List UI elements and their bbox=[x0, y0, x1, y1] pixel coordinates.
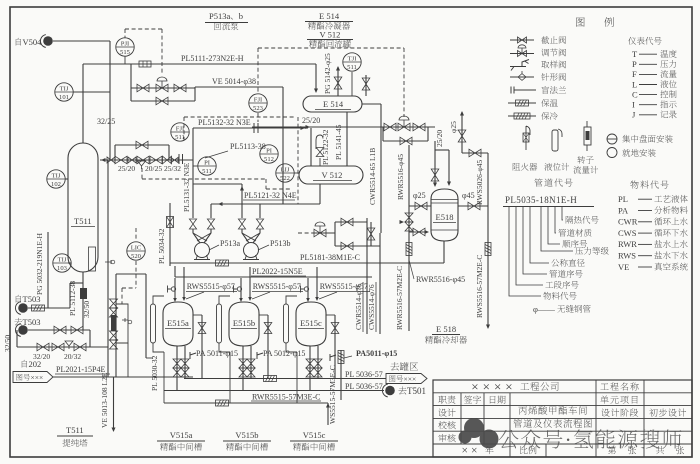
legend flame arrester symbol bbox=[526, 126, 530, 150]
svg-text:PL5132-32 N3E: PL5132-32 N3E bbox=[198, 118, 251, 127]
svg-text:511: 511 bbox=[347, 64, 357, 71]
legend dash bbox=[638, 232, 652, 234]
label leader bbox=[252, 292, 270, 299]
tank bottom outlet bbox=[317, 346, 319, 379]
valve bbox=[37, 343, 49, 351]
instrument FJI523 bbox=[249, 94, 267, 112]
gauge drain drop bbox=[229, 352, 231, 403]
level gauge E515c bbox=[284, 304, 289, 343]
caption 精酯中间槽 bbox=[226, 443, 234, 451]
valve bbox=[415, 202, 427, 210]
column T511 bbox=[68, 143, 98, 272]
pump suction header PL5121 bbox=[211, 203, 320, 205]
material label 盐水下水 bbox=[654, 251, 662, 258]
svg-text:P: P bbox=[632, 59, 637, 69]
svg-text:TIJ: TIJ bbox=[58, 256, 67, 263]
legend dash bbox=[639, 84, 657, 86]
pump valve bbox=[189, 219, 196, 229]
LIC520 signal drop bbox=[121, 288, 123, 304]
instrument LIJ522 bbox=[276, 164, 294, 182]
svg-text:PL 5034-32: PL 5034-32 bbox=[157, 228, 166, 264]
title 共 bbox=[656, 446, 664, 454]
pipe code callout 管道序号 bbox=[523, 207, 547, 274]
tank side nozzle bbox=[326, 314, 335, 316]
svg-text:×××: ××× bbox=[404, 375, 417, 384]
line number PL5131-32N3E bbox=[182, 162, 191, 212]
tank bottom outlet bbox=[184, 346, 186, 379]
drop bbox=[174, 266, 176, 277]
svg-text:PL 5112-38: PL 5112-38 bbox=[68, 281, 77, 316]
gauge valve bbox=[110, 308, 118, 317]
svg-text:RWR5516-φ45: RWR5516-φ45 bbox=[396, 154, 405, 200]
bypass right bbox=[427, 127, 429, 141]
instrument TIJ103 bbox=[53, 254, 71, 272]
svg-text:515: 515 bbox=[120, 49, 131, 56]
gauge drain drop bbox=[163, 352, 165, 403]
svg-text:VE: VE bbox=[618, 262, 629, 272]
drop bbox=[89, 330, 91, 347]
svg-text:RWR: RWR bbox=[618, 239, 637, 249]
feed pipe from V504 bbox=[53, 40, 110, 42]
connector from T503 bbox=[18, 303, 28, 313]
legend 流量 bbox=[660, 70, 668, 78]
label 去T503 bbox=[14, 318, 22, 326]
legend blind flange bbox=[511, 87, 536, 94]
svg-text:F: F bbox=[632, 69, 637, 79]
brine return header RWR5515 bbox=[164, 402, 328, 404]
svg-text:20/25 25/32: 20/25 25/32 bbox=[145, 164, 181, 173]
caption underline bbox=[57, 435, 93, 437]
legend 记录 bbox=[660, 111, 668, 118]
manifold right leg bbox=[194, 87, 196, 101]
signal run to LIJ bbox=[266, 188, 291, 190]
legend needle valve bbox=[510, 76, 534, 78]
caption 精酯冷却器 bbox=[425, 336, 433, 344]
pipe code underline bbox=[503, 206, 594, 208]
legend 指示 bbox=[660, 100, 668, 108]
pipe code label 工段序号 bbox=[545, 282, 553, 288]
legend 液位 bbox=[660, 80, 668, 88]
bypass right leg bbox=[168, 145, 170, 160]
label 自V504 bbox=[16, 38, 21, 46]
CW manifold lower bbox=[335, 245, 380, 247]
pump discharge leg bbox=[241, 184, 243, 218]
svg-text:522: 522 bbox=[280, 175, 290, 182]
E514 nozzle line bbox=[365, 75, 367, 96]
svg-text:V 512: V 512 bbox=[322, 170, 343, 180]
legend 压力 bbox=[660, 60, 668, 67]
gauge drain to PL2021 bbox=[127, 343, 129, 377]
tank feed drop from PL5181 bbox=[316, 267, 318, 299]
LIJ522 tap bbox=[294, 172, 299, 174]
tank E515a bbox=[163, 302, 193, 346]
double valve bbox=[173, 368, 181, 377]
svg-text:FJI: FJI bbox=[176, 125, 184, 132]
svg-text:·: · bbox=[565, 428, 573, 452]
sample stub bbox=[319, 158, 321, 166]
pump leg lower bbox=[193, 229, 200, 243]
title 校核 bbox=[438, 421, 447, 429]
instrument FJI511 bbox=[171, 123, 189, 141]
overhead vapour riser bbox=[82, 64, 84, 143]
label underline bbox=[251, 275, 306, 277]
hose connection bbox=[234, 286, 238, 293]
svg-text:L: L bbox=[632, 79, 637, 89]
distillate line to E518 bbox=[252, 126, 435, 128]
CW line bbox=[312, 232, 335, 234]
title block lines bbox=[433, 393, 692, 444]
svg-text:VE 5013-108 L2E: VE 5013-108 L2E bbox=[100, 372, 109, 428]
gauge bottom connection bbox=[286, 343, 297, 352]
svg-text:E518: E518 bbox=[436, 212, 454, 222]
caption 精酯冷凝器 bbox=[308, 22, 316, 30]
svg-text:PL5121-32 N4E: PL5121-32 N4E bbox=[244, 191, 297, 200]
valve bbox=[413, 123, 425, 131]
svg-text:TJI: TJI bbox=[348, 55, 357, 62]
legend level gauge symbol bbox=[558, 129, 562, 137]
orifice in overhead line bbox=[139, 61, 151, 67]
svg-text:×××: ××× bbox=[31, 373, 44, 382]
insulation bbox=[216, 260, 229, 266]
CW control valve bbox=[314, 229, 326, 237]
label underline bbox=[243, 199, 295, 201]
title 单元项目 bbox=[600, 395, 608, 403]
svg-text:P513a: P513a bbox=[220, 239, 240, 248]
hose connection bbox=[168, 286, 172, 293]
tank bottom outlet to PL5036 bbox=[242, 346, 244, 391]
gauge bracket bbox=[116, 304, 128, 343]
crossover bbox=[242, 233, 260, 241]
long vertical line bbox=[107, 160, 109, 377]
vent arrow up bbox=[336, 66, 340, 71]
svg-text:102: 102 bbox=[51, 181, 61, 188]
svg-text:PI: PI bbox=[204, 159, 210, 166]
tank side nozzle bbox=[193, 314, 202, 316]
size 25/20 vertical bbox=[435, 130, 444, 147]
gauge bottom connection bbox=[219, 343, 230, 352]
svg-text:VE 5014-φ38: VE 5014-φ38 bbox=[212, 77, 256, 86]
leader bbox=[258, 245, 269, 250]
vacuum line VE5014 bbox=[195, 86, 283, 88]
caption underline bbox=[290, 440, 338, 442]
arrow into E518 bbox=[447, 182, 451, 187]
valve bbox=[413, 228, 425, 236]
flow arrow bbox=[218, 202, 223, 206]
reflux line PL5132 bbox=[193, 127, 308, 129]
svg-text:PL5181-38M1E-C: PL5181-38M1E-C bbox=[300, 253, 360, 262]
double valve bbox=[405, 213, 413, 222]
gauge valve bbox=[110, 299, 118, 308]
title 张 bbox=[628, 446, 636, 454]
watermark circles bbox=[459, 418, 499, 449]
drum outlet bbox=[319, 184, 321, 204]
label underline bbox=[362, 282, 364, 332]
TJI511 tap bbox=[351, 72, 353, 96]
legend dash bbox=[639, 94, 657, 96]
TIJ101 tap line bbox=[73, 91, 110, 93]
svg-text:b: b bbox=[239, 11, 243, 21]
instrument PI512 bbox=[260, 145, 278, 163]
svg-text:32/50: 32/50 bbox=[82, 301, 91, 318]
legend dash bbox=[638, 255, 652, 257]
svg-text:T503: T503 bbox=[23, 294, 41, 304]
second line into E518 bbox=[448, 150, 450, 184]
line PG5032 bbox=[47, 232, 49, 308]
title 第 bbox=[608, 446, 616, 454]
legend 仪表代号 bbox=[628, 37, 636, 45]
jog to gauge line bbox=[146, 357, 153, 359]
arrow into T511 bbox=[101, 158, 106, 162]
arrow into E514 bbox=[314, 89, 318, 94]
pipe code callout 公称直径 bbox=[530, 207, 549, 263]
valve bbox=[331, 323, 339, 334]
svg-text:511: 511 bbox=[175, 134, 185, 141]
signal FJI523 to orifice bbox=[257, 113, 259, 122]
legend panel-mount symbol bbox=[607, 134, 617, 144]
gauge valve bbox=[110, 331, 118, 340]
pump valve bbox=[238, 219, 245, 229]
tank feed drop from PL2022 bbox=[240, 278, 242, 300]
legend dash bbox=[638, 266, 652, 268]
svg-text:E515a: E515a bbox=[167, 318, 189, 328]
vacuum line drop bbox=[282, 87, 284, 204]
title 签字 bbox=[464, 395, 472, 403]
double valve bbox=[306, 359, 314, 368]
vent line PG5142 bbox=[337, 67, 339, 96]
caption underline bbox=[157, 440, 205, 442]
valve bbox=[431, 169, 439, 181]
CW riser CWR5514-76 bbox=[366, 218, 368, 334]
tank side line bbox=[267, 315, 269, 379]
sample valve bbox=[190, 352, 196, 359]
double valve bbox=[181, 368, 189, 377]
title 职责 bbox=[438, 396, 446, 404]
T511 label underline bbox=[71, 226, 95, 228]
label leader bbox=[319, 292, 337, 299]
product header PL5181 bbox=[170, 262, 444, 264]
legend dash bbox=[639, 53, 657, 55]
flow arrow bbox=[301, 126, 306, 130]
svg-text:PA: PA bbox=[618, 205, 629, 215]
T511 internal gauge bbox=[89, 247, 96, 271]
tank E515b bbox=[229, 302, 259, 346]
caption 精酯中间槽 bbox=[293, 443, 301, 451]
brine riser bbox=[327, 403, 329, 425]
riser WS5515 bbox=[340, 350, 342, 400]
svg-text:PG 5032-219N1E-H: PG 5032-219N1E-H bbox=[35, 233, 44, 295]
line number CWS5514-76 bbox=[367, 284, 376, 330]
E518 left nozzle line bbox=[409, 205, 431, 207]
svg-text:V 512: V 512 bbox=[320, 30, 341, 40]
arrow into tank bbox=[315, 297, 319, 301]
pipe code callout 隔热代号 bbox=[562, 207, 563, 220]
insulation bbox=[406, 243, 412, 256]
leader bbox=[209, 245, 219, 250]
title 年 bbox=[485, 446, 493, 454]
svg-text:T501: T501 bbox=[407, 386, 426, 396]
vent riser PL5034-32 bbox=[169, 203, 171, 266]
valve bbox=[468, 202, 480, 210]
leader bbox=[344, 356, 352, 358]
pump discharge header bbox=[193, 183, 242, 185]
pump P513a bbox=[195, 243, 210, 258]
flame arrester bbox=[167, 217, 174, 228]
arrow into tank bbox=[239, 298, 243, 302]
label underline bbox=[375, 282, 377, 332]
arrow bbox=[400, 220, 405, 224]
cross header bbox=[116, 273, 146, 275]
line number CWR5514-65L1B bbox=[368, 148, 377, 205]
line number VE5013-108L2E bbox=[100, 372, 109, 428]
sample valve bbox=[330, 354, 336, 361]
tank bottom outlet bbox=[250, 346, 252, 379]
line number CWR5514-76 bbox=[354, 283, 363, 330]
pump leg lower bbox=[253, 229, 260, 243]
svg-text:E515b: E515b bbox=[233, 318, 255, 328]
legend local-mount symbol bbox=[607, 148, 617, 158]
insulation bbox=[216, 400, 229, 406]
arrow into E518 bbox=[425, 230, 430, 234]
valve bbox=[71, 326, 83, 334]
pipe code callout 物料代号 bbox=[509, 207, 541, 296]
signal drop to E518 control valve bbox=[403, 48, 405, 117]
dashed boundary left bbox=[183, 117, 185, 140]
line number RWS5026-45 bbox=[475, 160, 484, 205]
bypass valve bbox=[400, 137, 412, 145]
double valve bbox=[247, 359, 255, 368]
svg-text:PL 5030-32: PL 5030-32 bbox=[150, 355, 159, 391]
E514 outlet to CW riser bbox=[362, 103, 381, 105]
tank E515c bbox=[296, 302, 326, 346]
svg-text:RWS5026-φ45: RWS5026-φ45 bbox=[475, 160, 484, 205]
svg-text:25/20: 25/20 bbox=[118, 164, 135, 173]
double valve bbox=[239, 368, 247, 377]
pump leg lower bbox=[242, 229, 249, 243]
needle valve bbox=[105, 260, 111, 264]
svg-text:PA 5011-φ15: PA 5011-φ15 bbox=[196, 349, 238, 358]
tank bottom outlet to PL5036 bbox=[309, 346, 311, 391]
CW riser CWS5514-76 bbox=[379, 233, 381, 334]
valve bbox=[367, 228, 375, 240]
legend insulation bbox=[508, 102, 536, 104]
riser bbox=[69, 283, 71, 308]
valve bbox=[74, 343, 86, 351]
legend label 取样阀 bbox=[541, 61, 549, 68]
label 自T503 bbox=[16, 295, 21, 303]
signal drop from funnel bbox=[141, 168, 143, 179]
arrow into tank bbox=[182, 297, 186, 301]
column bottom outlet bbox=[82, 272, 84, 330]
legend cold insulation symbol bbox=[514, 113, 530, 119]
legend dash bbox=[639, 104, 657, 106]
svg-text:PL 5141-45: PL 5141-45 bbox=[334, 124, 343, 160]
double valve bbox=[314, 359, 322, 368]
legend 就地安装 bbox=[622, 149, 630, 157]
double valve bbox=[306, 368, 314, 377]
legend cv symbol bbox=[518, 51, 527, 57]
svg-text:RWS5516-57M2E-C: RWS5516-57M2E-C bbox=[475, 255, 484, 318]
valve bbox=[264, 323, 272, 334]
double valve bbox=[247, 368, 255, 377]
condensate line PL5141-45 bbox=[346, 112, 348, 166]
double valve bbox=[173, 359, 181, 368]
line number RWR5516-45 bbox=[396, 154, 405, 200]
svg-text:RWR5515-57M3E-C: RWR5515-57M3E-C bbox=[252, 393, 320, 402]
LIC520 signal bbox=[135, 228, 137, 241]
valve bbox=[341, 218, 353, 226]
signal FJI523 bbox=[257, 48, 259, 93]
pump leg lower bbox=[204, 229, 211, 243]
feed bypass row bbox=[115, 144, 169, 146]
svg-text:C: C bbox=[632, 89, 638, 99]
svg-text:20/32: 20/32 bbox=[64, 352, 81, 361]
title 张 bbox=[676, 446, 684, 454]
gauge drain valve bbox=[122, 318, 128, 322]
arrow into E518 bbox=[433, 183, 437, 188]
valve bbox=[171, 157, 178, 162]
svg-text:T: T bbox=[632, 49, 638, 59]
reflux drum V512 bbox=[299, 166, 363, 184]
instrument PJI515 bbox=[116, 38, 134, 56]
svg-text:φ25: φ25 bbox=[449, 121, 458, 133]
caption underline bbox=[223, 440, 271, 442]
svg-text:PL 5036-57: PL 5036-57 bbox=[345, 382, 383, 391]
svg-text:RWR5516-φ45: RWR5516-φ45 bbox=[416, 275, 465, 284]
E515b label underline bbox=[231, 328, 257, 330]
svg-text:××××: ×××× bbox=[471, 379, 516, 394]
product header PL5036 to T501 bbox=[164, 390, 384, 392]
svg-text:RWS: RWS bbox=[618, 251, 636, 261]
label underline bbox=[186, 291, 237, 293]
svg-text:CWR: CWR bbox=[618, 217, 638, 227]
svg-text:T511: T511 bbox=[74, 216, 92, 226]
title 审核 bbox=[438, 434, 446, 442]
valve bbox=[150, 156, 162, 164]
off-page connector from V504 bbox=[43, 36, 53, 46]
legend 温度 bbox=[660, 50, 668, 58]
level gauge E515b bbox=[217, 304, 222, 343]
svg-text:PJI: PJI bbox=[121, 40, 129, 47]
legend dash bbox=[639, 63, 657, 65]
bypass left bbox=[382, 127, 384, 141]
CW control valve actuator bbox=[315, 222, 325, 233]
legend insulation symbol bbox=[516, 100, 529, 106]
line into E518 bbox=[434, 141, 436, 185]
drawing ref banner bbox=[386, 374, 427, 384]
svg-text:25/20: 25/20 bbox=[302, 116, 320, 125]
pump discharge leg bbox=[192, 184, 194, 218]
svg-text:T511: T511 bbox=[66, 425, 84, 435]
pipe code label 顺序号 bbox=[562, 240, 570, 248]
pipe code label 物料代号 bbox=[543, 292, 551, 300]
insulation bbox=[32, 305, 45, 311]
valve bbox=[54, 326, 66, 334]
E518 tube sheets bbox=[431, 200, 458, 231]
title 比例 bbox=[520, 446, 527, 454]
vacuum manifold main bbox=[131, 87, 195, 89]
gauge top connection bbox=[153, 296, 164, 304]
svg-text:RWS5515-φ57: RWS5515-φ57 bbox=[320, 282, 368, 291]
E518 outlet bbox=[443, 241, 445, 263]
arrow down bbox=[111, 428, 115, 433]
material label 盐水上水 bbox=[654, 240, 662, 247]
signal main run bbox=[258, 47, 404, 49]
svg-text:32/25: 32/25 bbox=[97, 117, 115, 126]
vacuum manifold bypass bbox=[131, 100, 195, 102]
legend 转子 bbox=[577, 156, 585, 164]
drop into V512 bbox=[310, 128, 312, 166]
gauge bottom connection bbox=[153, 343, 164, 352]
